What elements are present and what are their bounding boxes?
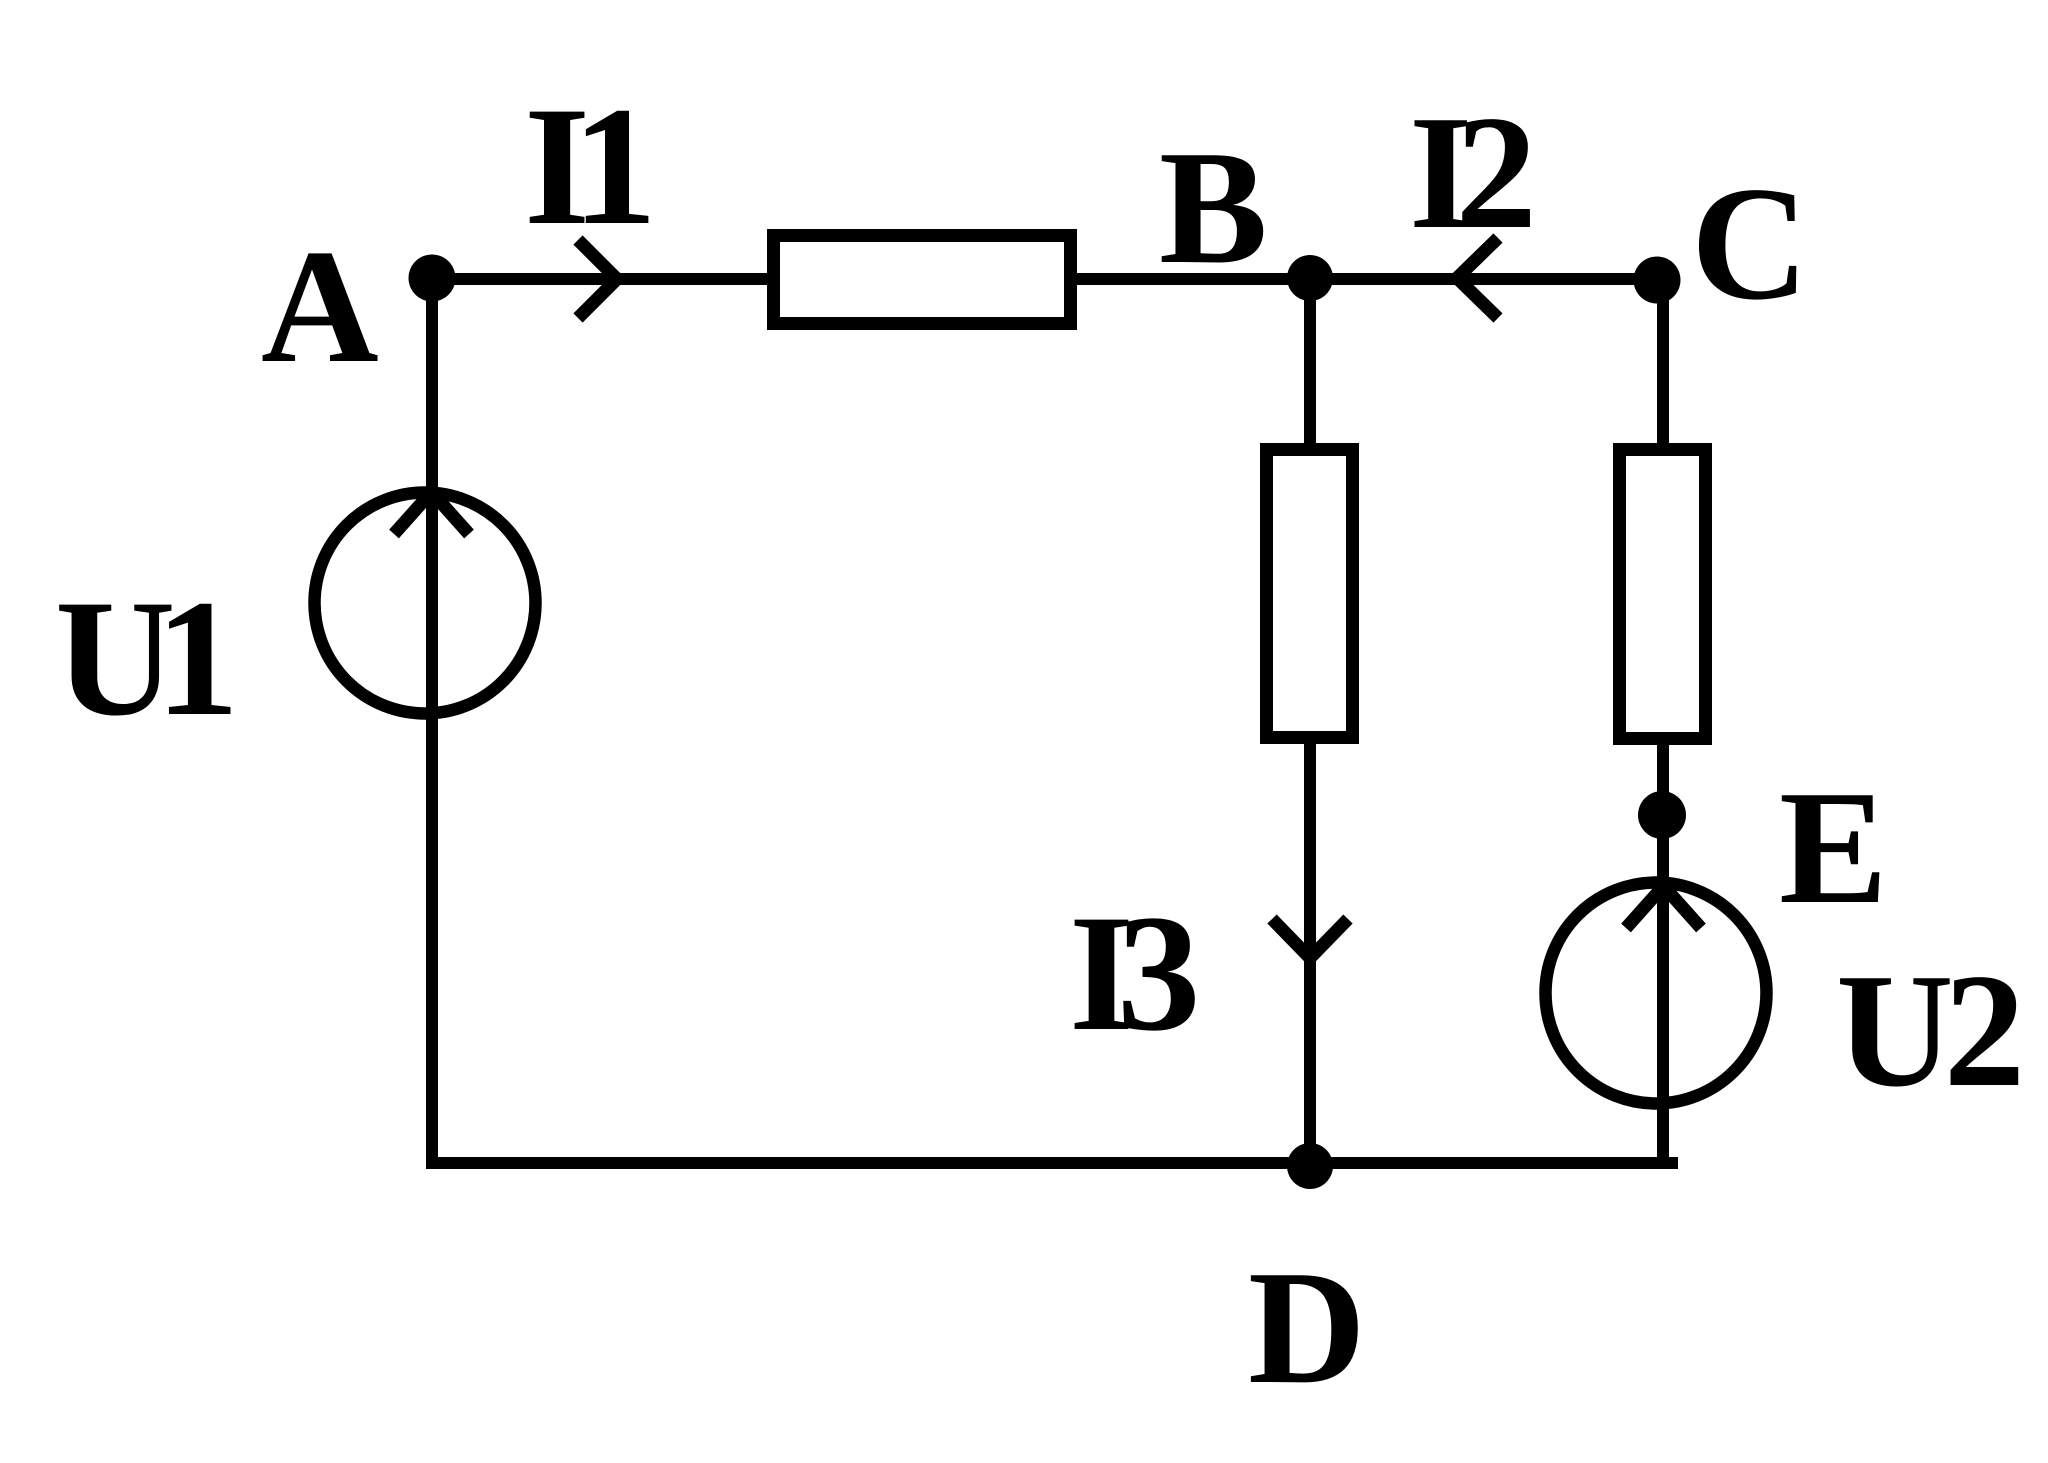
U2 arrowhead	[1626, 886, 1701, 928]
voltage source U1	[315, 493, 536, 714]
wire A down to bottom (left branch with U1 shaft)	[426, 279, 438, 1169]
svg-text:I2: I2	[1409, 83, 1530, 263]
resistor R1 (A-B)	[774, 236, 1071, 324]
wire B down to D (middle branch)	[1304, 279, 1316, 1163]
svg-text:U2: U2	[1836, 941, 2019, 1121]
U1 arrowhead	[394, 492, 469, 534]
arrow I2	[1457, 238, 1498, 318]
arrow I1	[578, 240, 617, 318]
svg-text:D: D	[1248, 1238, 1366, 1418]
svg-text:C: C	[1691, 154, 1809, 334]
wire bottom D rail	[426, 1157, 1678, 1169]
resistor R2 (B-D)	[1267, 450, 1353, 738]
node C	[1634, 257, 1681, 304]
wire C down to bottom (right branch with U2 shaft)	[1657, 279, 1669, 1163]
svg-text:I3: I3	[1069, 881, 1195, 1066]
resistor R3 (C-E)	[1620, 450, 1706, 739]
svg-text:A: A	[261, 217, 379, 397]
node A	[409, 255, 456, 302]
wire A-B-C (top)	[432, 273, 1663, 285]
node E	[1638, 791, 1686, 839]
node B	[1287, 255, 1333, 301]
node D	[1287, 1143, 1333, 1189]
svg-text:B: B	[1159, 118, 1268, 298]
svg-text:U1: U1	[55, 566, 231, 751]
svg-text:I1: I1	[524, 72, 649, 260]
voltage source U2	[1546, 883, 1767, 1104]
arrow I3	[1272, 919, 1348, 958]
svg-text:E: E	[1779, 758, 1888, 938]
